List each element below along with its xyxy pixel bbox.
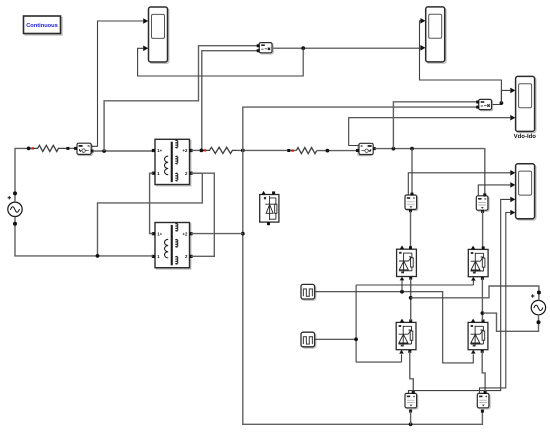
wire Q3 cathode to CM4 [410, 351, 414, 392]
unconnected output triangle Do m [261, 191, 266, 195]
port square T1 2 [189, 172, 192, 175]
junction dot bottom bus CM4 [409, 422, 413, 426]
port square Q2 anode [482, 246, 485, 249]
wire CM_A out to T1 primary [93, 150, 153, 152]
wire VM2 in- long [243, 107, 483, 424]
unconnected output triangle Q3 m [400, 319, 405, 323]
junction dot after R3 [326, 149, 330, 153]
port square CM3 bottom [481, 210, 484, 213]
signal wire PG2 -> Q2 and Q3 gates [315, 280, 474, 362]
port square CM5 top [484, 391, 487, 394]
junction dot AC1 top wire [27, 147, 31, 151]
port dot AC2 top [537, 291, 541, 295]
arrowhead Scope1 input1 [143, 18, 148, 24]
signal wire VM2 branch -> Scope2 input1 [420, 21, 502, 103]
thyristor Q3 [396, 322, 416, 349]
wire node1 to VM1 plus [104, 46, 257, 151]
resistor R2 [206, 147, 237, 153]
wire Q4 cathode to CM5 [482, 351, 485, 392]
signal wire CM_A i -> Scope1 input1 [92, 21, 144, 146]
current measurement CM5 [477, 393, 490, 409]
red port mark R3 left [291, 150, 294, 152]
arrowhead Scope4 input2 [510, 182, 515, 188]
wire T1.2 to T2.2 [191, 173, 214, 256]
signal wire CM4 i -> Scope4 input3 [409, 199, 511, 393]
junction dot PG2 [354, 337, 358, 341]
unconnected output triangle Q2 m [471, 246, 476, 250]
arrowhead Scope4 input1 [510, 170, 515, 176]
wire Q1 cathode to Q3 anode (midpoint 1) [410, 279, 412, 321]
current measurement CM_A (input current) [77, 143, 92, 155]
current measurement CM3 (above thyristor Q2) [476, 196, 489, 212]
signal wire CM1 i -> Scope3 input2 [349, 118, 511, 146]
diode block Do (unconnected) [260, 195, 279, 223]
gate triangle Q1 g [400, 277, 405, 281]
ac voltage source AC1 [8, 196, 23, 217]
signal wire PG1 branch to Q1 gate [401, 280, 403, 292]
port square CM2 top [411, 193, 414, 196]
arrowhead Scope4 input3 [510, 197, 515, 203]
signal wire VM1 v -> Scope2 input2 and branch [273, 47, 420, 49]
port square Q3 anode [409, 319, 412, 322]
port square T2 1+ [152, 232, 155, 235]
wire AC1 top lead [15, 148, 34, 202]
port square CM1 input [356, 149, 359, 152]
port square Q1 anode [409, 246, 412, 249]
voltage measurement VM1 [259, 43, 273, 54]
scope Scope1 (top left) [149, 7, 169, 63]
red port mark R1 left [31, 147, 34, 149]
signal wire VM2 v out with junction [493, 90, 511, 104]
red port mark R2 left [204, 149, 207, 151]
current measurement CM2 (above thyristor Q1) [405, 195, 418, 211]
signal wire CM5 i -> Scope4 input4 [480, 213, 511, 394]
pulse generator PG2 [301, 332, 316, 348]
wire main rail to CM2 top [411, 149, 413, 194]
current measurement CM4 [405, 393, 418, 409]
port square Q2 cathode [481, 277, 484, 280]
arrowhead Scope4 input4 [510, 210, 515, 216]
resistor R3 [296, 148, 316, 154]
port square CM_A input [74, 147, 77, 150]
thyristor Q2 [468, 249, 488, 276]
signal wire CM2 i -> Scope4 input1 [408, 173, 510, 195]
wire CM4 bottom to bus [410, 411, 412, 424]
unconnected port square Do anode [272, 191, 275, 194]
port square T2 2 [189, 255, 192, 258]
junction dot midpoint1 [409, 296, 413, 300]
wire R1 to CM_A [66, 147, 75, 149]
powergui block "Continuous" [24, 16, 63, 35]
port square T2 1 [152, 255, 155, 258]
port square CM2 bottom [409, 209, 412, 212]
svg-text:Vdo-Ido: Vdo-Ido [514, 133, 537, 140]
port square CM1 output [373, 147, 376, 150]
resistor R1 [34, 145, 66, 151]
junction dot resistor node x243 [241, 149, 245, 153]
port square R3 left [287, 149, 290, 152]
junction dot VM1 branch [301, 46, 305, 50]
port square T2 +2 [189, 232, 192, 235]
port square CM5 bottom [481, 410, 484, 413]
port square Q1 cathode [409, 277, 412, 280]
port square Do cathode [267, 222, 270, 225]
wire CM1 out to CM3 top (main dc rail) [375, 149, 485, 194]
port square VM1 in- [257, 49, 260, 52]
wire Q2 cathode to Q4 anode (midpoint 2) [481, 278, 483, 320]
pulse generator PG1 [301, 284, 316, 300]
gate triangle Q4 g [471, 350, 476, 354]
port square VM1 in+ [257, 44, 260, 47]
junction dot PG1 gate Q1 [400, 290, 404, 294]
label Vdo-Ido [514, 133, 537, 140]
gate triangle Q3 g [399, 350, 404, 354]
port square Q4 cathode [481, 350, 484, 353]
wire CM3 bottom to Q2 anode [482, 211, 484, 247]
wire midpoint1 to AC2 top [411, 286, 539, 301]
junction dot VM2 out [500, 101, 504, 105]
arrowhead Scope3 input2 [510, 115, 515, 121]
port square VM2 in- [476, 106, 479, 109]
junction dot T2.+2 node [241, 232, 245, 236]
port square T1 1+ [152, 149, 155, 152]
signal wire PG1 -> Q1 and Q4 gates [315, 292, 474, 363]
wire row2: T1.+2 to R2 [191, 149, 206, 151]
scope Scope2 (top right) [426, 7, 446, 63]
transformer T1 [155, 139, 191, 186]
unconnected output triangle Q1 m [400, 245, 405, 249]
wire CM2 bottom to Q1 anode [410, 211, 412, 248]
junction dot node1 [102, 149, 106, 153]
port square VM2 in+ [476, 101, 479, 104]
port square CM_A output [91, 150, 94, 153]
wire T1.1 to T2.1+ [150, 173, 153, 233]
arrowhead Scope2 input1 [420, 18, 425, 24]
junction dot VM1 minus node [200, 149, 204, 153]
current measurement CM1 (Ido) mirrored [358, 143, 373, 155]
junction dot midpoint2 [481, 311, 485, 315]
port square T1 1 [152, 172, 155, 175]
wire VM2 in+ [393, 102, 477, 149]
port square CM4 top [412, 391, 415, 394]
arrowhead Scope2 input2 [420, 45, 425, 51]
wire VM1 minus to node2 [202, 51, 257, 151]
voltage measurement VM2 (Vdo) [479, 99, 493, 110]
gate triangle Q2 g [471, 277, 476, 281]
junction dot bottom return [96, 254, 100, 258]
scope Scope4 (right, 4 inputs) [516, 164, 536, 220]
scope Scope3 "Vdo-Ido" [516, 76, 536, 132]
port square CM4 bottom [409, 410, 412, 413]
svg-text:Continuous: Continuous [26, 22, 58, 29]
port dot AC1 bottom [13, 222, 17, 226]
wire R2 to R3 [238, 149, 297, 151]
port square on wire after R1 [66, 147, 69, 150]
wire AC1 bottom return to T2.1 [15, 217, 153, 256]
ac voltage source AC2 [531, 294, 546, 315]
thyristor Q4 [468, 322, 488, 349]
wire T2.+2 to x243 rail [191, 233, 243, 235]
junction dot CM2 tap [410, 147, 414, 151]
port square T1 +2 [189, 149, 192, 152]
wire AC2 bottom to midpoint2 [483, 313, 539, 331]
junction dot VM2 plus tap [392, 147, 396, 151]
unconnected output triangle Q4 m [471, 319, 476, 323]
port dot AC1 top [13, 191, 17, 195]
arrowhead Scope1 input2 [143, 46, 148, 52]
signal wire VM1 branch -> Scope1 input2 [138, 48, 304, 76]
port square Q3 cathode [408, 350, 411, 353]
transformer T2 [155, 223, 191, 270]
signal wire CM3 i -> Scope4 input2 [478, 185, 510, 196]
port square CM3 top [483, 193, 486, 196]
wire T1.2 down to AC1 return [98, 173, 203, 256]
port dot AC2 bottom [537, 320, 541, 324]
port square Q4 anode [482, 319, 485, 322]
wire R3 to CM1 [317, 150, 357, 152]
thyristor Q1 [397, 249, 417, 276]
arrowhead Scope3 input1 [510, 88, 515, 94]
